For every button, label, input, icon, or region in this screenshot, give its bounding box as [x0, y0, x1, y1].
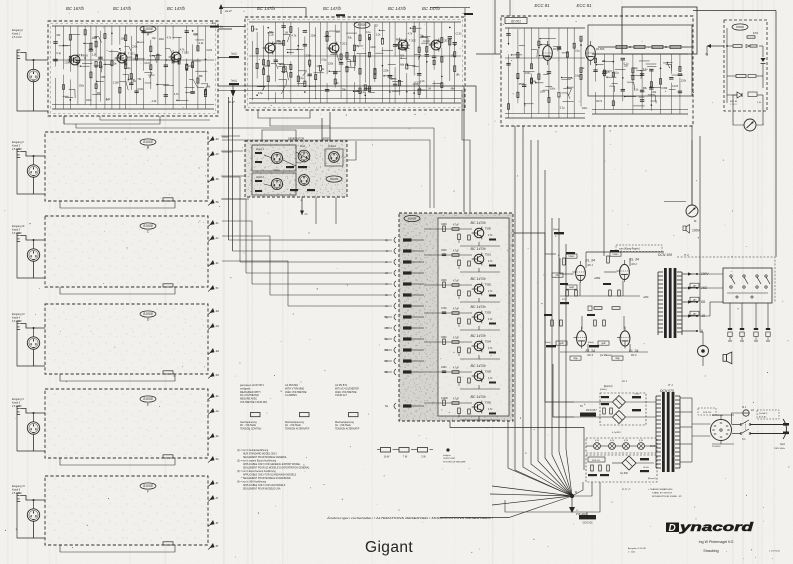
svg-text:DCN 516: DCN 516: [583, 522, 594, 525]
DIN input connector channel 5: [27, 422, 39, 434]
svg-text:16 W: 16 W: [384, 456, 390, 459]
voltage selector plate: [711, 415, 732, 448]
svg-text:1M: 1M: [336, 31, 339, 34]
rectifier bridge Gl2: [613, 411, 626, 424]
wire block G top feeds: [210, 8, 473, 28]
svg-text:BC 147/b: BC 147/b: [388, 6, 407, 11]
svg-text:2e: 2e: [215, 409, 220, 413]
svg-text:2a-2f: 2a-2f: [224, 9, 233, 13]
mixer stage 1 RC parts: [424, 224, 500, 246]
DIN input connector channel 3: [27, 249, 39, 261]
svg-text:81009: 81009: [330, 177, 339, 181]
module label 81006 G: [354, 22, 378, 28]
svg-text:8Ω: 8Ω: [701, 300, 706, 304]
DIN socket input 1: [271, 152, 282, 163]
label BC147/b mixer stage 2: [471, 247, 486, 251]
svg-text:C1000: C1000: [441, 398, 448, 400]
svg-text:10µ: 10µ: [152, 37, 157, 40]
connector module small parts: [255, 152, 315, 192]
svg-text:SEULEMENT POUR LE MODELE D EXP: SEULEMENT POUR LE MODELE D EXPORTATION G…: [243, 467, 310, 470]
svg-text:220/240V: 220/240V: [712, 446, 721, 448]
bus wires channels to mixer: [64, 124, 437, 240]
svg-text:= TRANSFORMATEURS: = TRANSFORMATEURS: [648, 488, 673, 491]
dashed box USA note: [757, 410, 779, 419]
svg-text:100n: 100n: [550, 88, 556, 91]
star ground node: [570, 490, 578, 498]
svg-text:T306: T306: [485, 401, 492, 405]
svg-text:4,7k: 4,7k: [174, 93, 179, 96]
module 81008/B channel 2 preamp (dashed enclosure): [45, 132, 208, 201]
wire tube module inputs: [476, 0, 510, 54]
svg-text:T 203: T 203: [442, 39, 450, 43]
svg-text:2,2k: 2,2k: [269, 34, 274, 37]
module 81006/G driver stage (dashed enclosure): [245, 17, 465, 110]
svg-text:81008: 81008: [143, 312, 153, 316]
svg-text:220k: 220k: [132, 45, 138, 48]
transistor T300 mixer stage 1: [472, 227, 492, 240]
load resistor legend boxes: [377, 448, 433, 459]
svg-text:Gl. 1: Gl. 1: [622, 380, 628, 383]
svg-text:C: C: [147, 229, 150, 233]
svg-text:Input 2: Input 2: [256, 175, 264, 179]
sub-panel input1: [252, 145, 296, 171]
svg-text:T302: T302: [485, 283, 492, 287]
svg-text:[zu Masse]: [zu Masse]: [600, 354, 612, 357]
test point dot legend: [443, 448, 466, 463]
svg-text:0,5µ: 0,5µ: [321, 58, 326, 61]
svg-text:Eingang VI: Eingang VI: [12, 484, 25, 488]
svg-text:hellgrün: hellgrün: [443, 454, 452, 457]
svg-text:braun: braun: [569, 255, 576, 258]
ground arrow PVF4034: [569, 507, 587, 516]
svg-text:4,7µF: 4,7µF: [453, 368, 460, 370]
meter M 100V line output: [686, 205, 698, 223]
svg-text:Rö 3: Rö 3: [588, 353, 594, 357]
mains transformer Tr1 core and windings: [656, 392, 680, 472]
transistor T101: [115, 52, 136, 65]
svg-text:C124: C124: [144, 62, 150, 65]
svg-text:STAND BY SWITCH: STAND BY SWITCH: [652, 492, 672, 495]
svg-text:81008: 81008: [143, 397, 153, 401]
svg-text:Stereo: Stereo: [296, 161, 303, 164]
svg-text:T 201: T 201: [340, 42, 348, 46]
svg-text:gelb: gelb: [559, 343, 564, 345]
wire EL34 interconnect: [545, 252, 664, 360]
svg-text:Eingang III: Eingang III: [12, 224, 25, 228]
svg-text:C331: C331: [137, 88, 143, 91]
output arrows channel F: [208, 480, 219, 550]
svg-text:EL 34: EL 34: [629, 349, 638, 353]
label BC147/b mixer stage 6: [471, 364, 486, 368]
svg-text:BC 147/b: BC 147/b: [323, 6, 342, 11]
wire monitor input arrow: [705, 44, 724, 56]
svg-text:+RB2: +RB2: [594, 277, 601, 280]
svg-text:COUR ALT: COUR ALT: [335, 394, 347, 397]
svg-text:T300: T300: [485, 227, 492, 231]
svg-text:6,3V: 6,3V: [610, 440, 615, 442]
speaker output terminals: [728, 303, 770, 341]
tube Roe500 ECC81 triode b: [586, 41, 605, 65]
svg-text:C400: C400: [441, 224, 447, 226]
EL34 boxed wiring labels: [552, 252, 623, 360]
module 81008/E channel 5 preamp (dashed enclosure): [45, 389, 208, 458]
svg-text:BC 147/b: BC 147/b: [471, 334, 486, 338]
wire block G bottom outputs: [258, 86, 476, 126]
wire input to channel B: [17, 152, 175, 209]
mixer input pads: [403, 238, 424, 407]
svg-text:C130: C130: [456, 33, 462, 36]
svg-text:(3) = nur in Exportversion A: (3) = nur in Exportversion Ausführung: [237, 470, 276, 473]
legend sample boxes: [251, 413, 359, 417]
svg-text:BC 147/b: BC 147/b: [471, 247, 486, 251]
svg-text:C500: C500: [441, 250, 447, 252]
svg-text:weiß: weiß: [569, 287, 574, 289]
wire harness channels B-F to mixer inputs: [64, 116, 434, 208]
svg-text:Straubing: Straubing: [703, 549, 718, 553]
footnote list: [237, 449, 310, 491]
wire channel A bottom loop: [64, 116, 210, 124]
svg-text:5d: 5d: [216, 373, 220, 377]
module label 87002: [732, 24, 748, 30]
svg-text:0,5µ: 0,5µ: [258, 92, 263, 95]
terminal box DCN516: [505, 482, 600, 525]
svg-text:JAY: JAY: [693, 312, 697, 315]
DIN input connector channel 4: [27, 337, 39, 349]
svg-text:5c: 5c: [216, 286, 220, 290]
wire switch box to taps: [697, 258, 723, 316]
svg-text:100n: 100n: [525, 72, 531, 75]
label BC147/b: [257, 6, 276, 11]
svg-text:JAY: JAY: [693, 284, 697, 287]
svg-text:1.1 M Seite: 1.1 M Seite: [769, 550, 781, 553]
svg-text:100n: 100n: [159, 38, 165, 41]
wire input to channel C: [17, 236, 175, 295]
svg-text:220k: 220k: [681, 79, 687, 82]
edition note: [628, 547, 781, 554]
svg-text:1M: 1M: [428, 87, 431, 90]
svg-text:BC 147/b: BC 147/b: [257, 6, 276, 11]
svg-text:Tr 2: Tr 2: [684, 253, 689, 257]
note transformer versions: [622, 487, 682, 498]
svg-text:G: G: [375, 24, 378, 28]
svg-text:2,5 mV/2: 2,5 mV/2: [12, 36, 22, 39]
svg-text:BC 147/b: BC 147/b: [471, 221, 486, 225]
svg-text:0,1µ: 0,1µ: [56, 52, 61, 55]
label BC147/b: [422, 6, 441, 11]
svg-text:DCN 516: DCN 516: [703, 412, 712, 414]
label BC147/b mixer stage 7: [471, 395, 486, 399]
speaker matching switch box: [723, 268, 772, 303]
svg-text:4,7µF: 4,7µF: [453, 281, 460, 283]
svg-text:3c: 3c: [216, 261, 220, 265]
svg-text:C138: C138: [113, 81, 119, 84]
sub-panel input2: [252, 173, 296, 195]
svg-text:A LAMPES: A LAMPES: [285, 394, 297, 397]
module label 81008 F: [140, 483, 156, 494]
svg-text:ECC 81: ECC 81: [576, 3, 592, 8]
svg-text:T 100: T 100: [81, 54, 89, 58]
rectifier bridge Gl1: [613, 396, 626, 409]
dashed box voltage selector label: [698, 408, 716, 415]
svg-text:(2) = nur in ungere Export Au: (2) = nur in ungere Export Ausführung: [237, 460, 277, 463]
power supply filter parts upper: [574, 389, 656, 434]
svg-text:C600: C600: [441, 280, 447, 282]
svg-text:DRS 007: DRS 007: [592, 460, 601, 462]
mixer stage 3 RC parts: [424, 280, 500, 302]
EL34 grid resistors and bias parts: [544, 229, 648, 347]
svg-text:5b: 5b: [216, 200, 220, 204]
svg-text:EL 34: EL 34: [586, 349, 595, 353]
wire star node branches: [490, 482, 592, 507]
svg-text:Eingang I: Eingang I: [12, 28, 23, 32]
svg-text:DC - VOLTAGE: DC - VOLTAGE: [240, 424, 256, 427]
svg-text:[Export]: [Export]: [648, 477, 656, 480]
svg-text:AC - VOLTAGE: AC - VOLTAGE: [335, 424, 351, 427]
svg-text:2,2k: 2,2k: [420, 80, 425, 83]
svg-text:D: D: [147, 317, 150, 321]
svg-text:220k: 220k: [328, 63, 334, 66]
svg-text:INTERRUPTEUR STAND - BY: INTERRUPTEUR STAND - BY: [652, 495, 682, 498]
DIN input connector channel 6: [27, 509, 39, 521]
svg-text:82 001: 82 001: [511, 19, 521, 23]
svg-text:Tr 1: Tr 1: [668, 383, 673, 387]
label BC147/b mixer stage 5: [471, 334, 486, 338]
svg-text:BC 147/b: BC 147/b: [471, 395, 486, 399]
label BC147/b: [388, 6, 407, 11]
svg-text:Rö 2: Rö 2: [632, 262, 638, 266]
svg-text:0,1µ: 0,1µ: [575, 50, 580, 53]
input jack socket channel 2: [12, 140, 24, 158]
wire right edge vertical: [693, 11, 776, 258]
Dynacord logo: [666, 522, 755, 534]
arrow up node 2a-2f feed: [219, 4, 306, 17]
svg-text:100n: 100n: [79, 85, 85, 88]
svg-text:Gigant: Gigant: [365, 539, 413, 556]
relay DCN647: [580, 405, 597, 417]
svg-text:TENSION CONTINU: TENSION CONTINU: [240, 428, 262, 430]
svg-text:2,2k: 2,2k: [376, 34, 381, 37]
svg-text:0,1µ: 0,1µ: [366, 31, 371, 34]
svg-text:4c: 4c: [216, 221, 220, 225]
module label 81008 A: [140, 26, 156, 37]
wire meter to line: [664, 140, 692, 205]
wire input to channel D: [17, 324, 175, 382]
svg-text:4,7µF: 4,7µF: [453, 225, 460, 227]
svg-text:TESTPOINT: TESTPOINT: [443, 458, 456, 460]
svg-text:C222: C222: [206, 49, 212, 52]
svg-text:C 22 V: C 22 V: [730, 104, 737, 106]
module label 81008 C: [140, 223, 156, 234]
svg-text:+RM: +RM: [643, 296, 648, 299]
svg-text:4,7k: 4,7k: [167, 37, 172, 40]
svg-text:4e: 4e: [216, 394, 220, 398]
transistor T201: [327, 42, 348, 55]
mixer stage 4 RC parts: [424, 308, 500, 330]
bottom tab channel F: [163, 542, 173, 545]
svg-text:2b: 2b: [215, 152, 220, 156]
label DCN079 mains transformer designation: [660, 383, 674, 393]
label BC147/b: [323, 6, 342, 11]
svg-text:BC 147/b: BC 147/b: [471, 277, 486, 281]
dashed enclosure output section: [677, 257, 775, 303]
svg-text:NUR STANDARD MODEL ONLY: NUR STANDARD MODEL ONLY: [243, 453, 277, 456]
module 81008/C channel 3 preamp (dashed enclosure): [45, 216, 208, 287]
svg-text:Eingang IV: Eingang IV: [12, 312, 25, 316]
wire channel outputs bus verticals: [229, 97, 233, 251]
svg-text:220k: 220k: [370, 46, 376, 49]
tube EL34 Rö 1: [573, 259, 595, 284]
transistor T301 mixer stage 2: [472, 253, 492, 266]
svg-text:4,7µ/35V: 4,7µ/35V: [612, 432, 621, 434]
tube EL34 Rö 2: [617, 258, 639, 283]
label BC147/b mixer stage 1: [471, 221, 486, 225]
input jack socket channel 5: [12, 397, 24, 415]
svg-text:R898: R898: [127, 56, 133, 59]
bottom tab channel B: [163, 198, 173, 201]
svg-text:0,1µ: 0,1µ: [560, 107, 565, 110]
svg-text:220k: 220k: [383, 69, 389, 72]
DIN socket output: [325, 144, 343, 166]
svg-text:[Mod]: [Mod]: [545, 342, 551, 344]
svg-text:2,2k: 2,2k: [199, 42, 204, 45]
svg-text:81005: 81005: [408, 217, 417, 221]
legend captions: [240, 422, 360, 430]
svg-text:2,2k: 2,2k: [152, 100, 157, 103]
svg-text:APPLICABLE ONLY FOR USA MODEL: APPLICABLE ONLY FOR USA MODELS: [243, 484, 286, 487]
module 82001 circuit detail right: [592, 54, 688, 114]
tube EL34 Rö 4: [617, 327, 638, 358]
svg-text:3a(L): 3a(L): [231, 79, 237, 83]
svg-text:C510: C510: [634, 394, 640, 396]
svg-text:0,5µ: 0,5µ: [575, 75, 580, 78]
module 82001 tone/driver stage (dashed enclosure): [501, 16, 693, 126]
module label 81008 B: [140, 139, 156, 150]
svg-text:5a-f: 5a-f: [212, 22, 217, 25]
svg-text:Wechselspannung: Wechselspannung: [285, 422, 305, 424]
svg-text:4,7µF: 4,7µF: [453, 309, 460, 311]
transistor T305 mixer stage 6: [472, 370, 492, 383]
svg-text:BC 147/b: BC 147/b: [422, 6, 441, 11]
svg-text:Ing W Pinternagel KG: Ing W Pinternagel KG: [699, 540, 734, 544]
svg-text:Rö 500: Rö 500: [596, 47, 605, 51]
wire channel A to mixer feed: [462, 86, 470, 212]
svg-text:EL 34: EL 34: [586, 259, 595, 263]
svg-text:BZY 85: BZY 85: [730, 101, 738, 103]
module 81008/A channel 1 preamp (dashed enclosure): [48, 21, 218, 116]
bottom tab channel D: [163, 371, 173, 374]
wire output taps: [682, 272, 709, 333]
solid sub-enclosure filter board: [588, 7, 697, 96]
svg-text:100n: 100n: [582, 107, 588, 110]
mains fuse Si1: [742, 406, 754, 416]
output transformer Tr2 core and windings: [658, 268, 682, 338]
mains plug: [774, 419, 789, 450]
svg-text:[2x 6A T]: [2x 6A T]: [759, 412, 768, 415]
module 87002 monitor network (dashed enclosure): [724, 20, 767, 111]
bottom tab channel E: [163, 455, 173, 458]
svg-text:vom [Klang-Regler]: vom [Klang-Regler]: [619, 248, 640, 251]
rectifier bridge Gl500: [620, 456, 636, 475]
svg-text:1 : 5014: 1 : 5014: [628, 552, 636, 554]
channel A circuit detail network: [52, 26, 214, 109]
svg-text:4,7µF: 4,7µF: [453, 251, 460, 253]
svg-text:a' ,b' ,c': a' ,b' ,c': [622, 487, 631, 491]
svg-text:T 102: T 102: [182, 51, 190, 55]
svg-text:C123: C123: [672, 85, 678, 88]
manufacturer note: [699, 540, 734, 553]
mixer stage 7 RC parts: [424, 398, 500, 420]
svg-text:rt/ge: rt/ge: [573, 357, 578, 360]
wire channel A outputs right: [218, 25, 464, 91]
mixer stage 5 RC parts: [424, 337, 500, 359]
wire right area verticals: [700, 136, 776, 332]
svg-text:3e: 3e: [216, 434, 220, 438]
svg-text:C399: C399: [661, 87, 667, 90]
svg-text:C700: C700: [441, 308, 447, 310]
svg-text:81008: 81008: [143, 484, 153, 488]
svg-text:Input 1: Input 1: [256, 147, 264, 151]
legend block 2: [285, 384, 307, 397]
legend block 3: [335, 384, 359, 397]
input jack socket channel 4: [12, 312, 25, 330]
legend block 1 measurement note: [240, 384, 267, 404]
svg-text:C800: C800: [441, 337, 447, 339]
svg-text:3a(L): 3a(L): [231, 52, 237, 56]
svg-text:JAY: JAY: [693, 298, 697, 301]
bottom tab channel C: [163, 284, 173, 287]
module label 81008 D: [140, 311, 156, 322]
output arrows channel D: [208, 308, 219, 379]
mixer stage 6 RC parts: [424, 367, 500, 389]
svg-text:ECC 81: ECC 81: [534, 3, 550, 8]
wire connector block risers: [262, 112, 356, 224]
svg-text:DCN 109: DCN 109: [658, 253, 672, 257]
transistor T306 mixer stage 7: [472, 401, 492, 414]
alterations reserved note: [326, 516, 494, 520]
svg-text:Eingang II: Eingang II: [12, 140, 24, 144]
svg-text:3b: 3b: [216, 177, 220, 181]
svg-text:APPLICABLE ONLY FOR GENERAL E: APPLICABLE ONLY FOR GENERAL EXPORT MODEL: [243, 463, 301, 466]
svg-text:5V: 5V: [580, 405, 583, 408]
title Gigant: [365, 539, 413, 556]
loudspeaker symbol: [723, 352, 732, 364]
svg-text:87002: 87002: [736, 25, 744, 29]
label ECC81 (2): [576, 3, 592, 8]
svg-text:4,7k: 4,7k: [408, 32, 413, 35]
svg-text:Gleichspannung: Gleichspannung: [240, 422, 257, 424]
svg-text:4,7µF: 4,7µF: [453, 338, 460, 340]
svg-text:T305: T305: [485, 370, 492, 374]
DIN input connector channel 1: [27, 69, 39, 81]
tone control resistor ladder: [598, 45, 692, 48]
svg-text:Rö 1: Rö 1: [588, 263, 594, 267]
input jack socket channel 6: [12, 484, 25, 502]
svg-text:R271: R271: [596, 100, 602, 103]
tube EL34 Rö 3: [574, 327, 595, 358]
label BC147/b: [167, 6, 186, 11]
svg-text:4,7µF: 4,7µF: [453, 399, 460, 401]
svg-text:4,7k: 4,7k: [292, 35, 297, 38]
svg-text:[Export]: [Export]: [604, 385, 613, 388]
svg-text:0,1µ: 0,1µ: [299, 77, 304, 80]
svg-text:10µ: 10µ: [127, 67, 132, 70]
wire transformer secondary taps: [680, 398, 692, 462]
svg-text:[Mod]: [Mod]: [553, 229, 559, 231]
transistor T304 mixer stage 5: [472, 340, 492, 353]
svg-text:BC 167/b: BC 167/b: [66, 6, 85, 11]
svg-text:5e: 5e: [216, 457, 220, 461]
svg-text:Ausgabe 4. 9.6 68: Ausgabe 4. 9.6 68: [628, 547, 647, 550]
